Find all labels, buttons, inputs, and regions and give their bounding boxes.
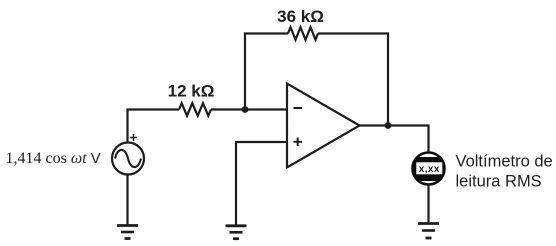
wire: feedback left vertical riser [245,34,288,110]
wire: R1 to op-amp inverting input [211,108,287,110]
svg-text:12 kΩ: 12 kΩ [168,82,215,101]
voltage source V1 [112,143,144,175]
svg-text:Voltímetro de: Voltímetro de [456,153,553,171]
polarity plus mark of source [130,134,137,141]
wire: source bottom to ground [126,175,128,226]
wire: voltmeter to ground [427,184,429,224]
ground (right, below voltmeter) [418,224,439,239]
op-amp U1 triangle [287,84,360,168]
wire: feedback right down to output node [318,34,388,126]
svg-text:1,414 cos ωt V: 1,414 cos ωt V [6,150,101,167]
wire: source top to inverting input (node at y=109.5) [128,110,180,144]
node B junction dot (output) [385,122,392,129]
ground (left, below source) [117,226,138,239]
resistor R2 36 kΩ [288,27,318,40]
svg-text:36 kΩ: 36 kΩ [277,7,324,26]
pin label minus (inverting input) [294,107,303,109]
wire: non-inverting input to ground [236,142,287,225]
label Voltímetro de leitura RMS [456,153,553,191]
pin label plus (non-inverting input) [294,138,303,147]
voltmeter M1 (RMS reading) [409,153,448,185]
svg-text:x,xx: x,xx [419,164,440,175]
resistor R1 12 kΩ [179,103,211,116]
svg-text:leitura RMS: leitura RMS [456,173,542,191]
node A junction dot (feedback tap) [242,106,249,113]
wire: op-amp output to voltmeter [360,126,429,154]
ground (middle, at non-inverting input) [226,226,247,239]
